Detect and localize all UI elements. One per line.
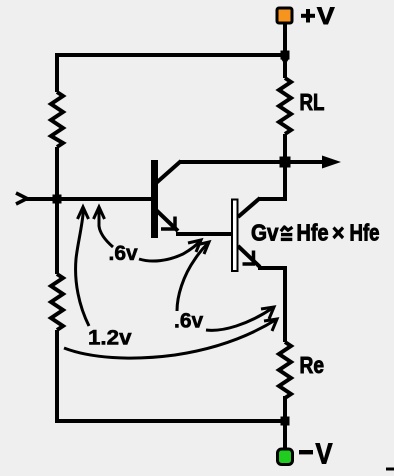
- svg-text:Re: Re: [300, 352, 325, 378]
- svg-text:Gv: Gv: [251, 220, 279, 246]
- svg-text:×: ×: [332, 220, 345, 246]
- svg-text:.6v: .6v: [109, 242, 139, 265]
- svg-text:RL: RL: [300, 89, 325, 115]
- svg-text:.6v: .6v: [174, 310, 204, 333]
- svg-text:1.2v: 1.2v: [88, 327, 132, 350]
- svg-text:V: V: [316, 439, 333, 471]
- svg-text:Hfe: Hfe: [350, 220, 380, 246]
- svg-text:V: V: [317, 3, 335, 30]
- svg-text:Hfe: Hfe: [297, 220, 329, 246]
